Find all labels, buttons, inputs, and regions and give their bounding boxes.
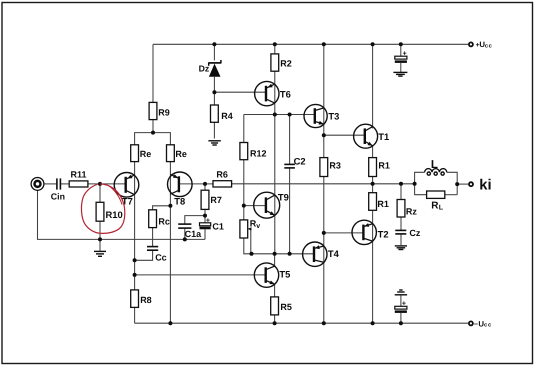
resistor R2 [271,54,279,71]
capacitor C2 [284,163,295,165]
wire T8 collector node to Rc [153,206,171,210]
wire R1 lower to T2 then bottom rail [372,210,374,323]
svg-text:Cz: Cz [409,228,420,238]
svg-text:cc: cc [484,323,492,329]
node R10 ground [98,237,102,241]
svg-text:T2: T2 [378,228,389,239]
resistor R5 [271,297,279,315]
wire split to left Re [135,133,153,145]
wire bottom rail [135,322,468,324]
node T9e T5c [273,252,277,256]
svg-text:T5: T5 [279,269,290,280]
wire C2 column upper [289,115,291,165]
node T6 T9 [273,113,277,117]
node output L right [455,182,459,186]
svg-text:R1: R1 [377,199,389,209]
wire right Re to T8 column down to bottom rail [169,162,171,324]
wire R5 to bottom rail [274,315,276,323]
svg-text:R5: R5 [280,302,292,312]
node T7col T5 base [133,273,137,277]
wire T1 collector column to rail [372,44,374,128]
wire T1 emitter to R1 upper [372,146,374,158]
node T8 Rc [168,204,172,208]
node Rv wiper [250,252,254,256]
svg-text:T9: T9 [278,192,289,203]
svg-text:R9: R9 [158,107,170,117]
wire T9 base [244,205,266,207]
wire T7 collector node to T5 base [135,274,266,276]
svg-text:R12: R12 [250,149,267,159]
svg-text:T8: T8 [174,195,185,206]
node rail R2 [273,42,277,46]
resistor R1 lower [369,193,377,211]
capacitor Cz [395,229,406,231]
svg-text:R1: R1 [378,161,390,171]
node Dz R4 T6 [212,90,216,94]
svg-text:R7: R7 [210,195,222,205]
annotation red tail through T7 [104,185,122,205]
annotation red circle around R10 [81,184,124,233]
wire R10 stem bottom [99,221,101,239]
node bottom R5 [273,321,277,325]
node T8 base R7 [203,182,207,186]
wire Rz to Cz [400,217,402,230]
transistor T1 [354,124,378,148]
wire R7 bottom to C1 node [204,209,206,222]
wire rail corner to R9 [152,44,154,102]
node C2 top [288,113,292,117]
wire R10 stem top [99,184,101,202]
resistor R7 [201,190,209,209]
capacitor -Ucc decoupling electrolytic [395,300,407,313]
node output L left [413,182,417,186]
node rail T3 [322,42,326,46]
svg-text:Rc: Rc [158,217,170,227]
terminal ki [469,182,473,186]
svg-text:Rz: Rz [406,206,417,216]
wire ground stem under R10 [99,239,101,250]
transistor T3 [304,104,327,127]
zener diode Dz [209,60,221,77]
wire Cin to R11 [60,183,69,185]
wire C1 node to C1a [185,216,205,225]
node R7 C1 C1a [203,214,207,218]
wire R7 stem [204,184,206,190]
transistor T5 [254,263,278,287]
capacitor +Ucc decoupling electrolytic [395,51,407,63]
wire T3 emitter node to T1 base [324,134,365,136]
capacitor Cc [147,246,158,248]
wire R8 to bottom rail [134,307,136,323]
svg-text:R2: R2 [280,58,292,68]
wire Cz to ground [400,234,402,245]
wire C1a bottom stem [184,228,186,239]
wire R4 to ground [213,122,215,138]
svg-text:R11: R11 [71,170,87,180]
wire Dz node to T6 base [214,91,266,93]
wire T3 collector column to rail [323,44,325,135]
capacitor C1 electrolytic [200,217,211,229]
svg-text:C2: C2 [294,155,306,166]
wire Rv wiper [247,229,250,254]
wire Cc bottom to T7 column [135,250,153,260]
wire left Re to T7 column down to R8 [134,162,136,290]
svg-text:R8: R8 [140,295,152,305]
svg-text:R3: R3 [329,161,341,171]
wire output node to Rz [400,184,402,200]
resistor R11 [69,181,88,187]
terminal +Ucc [469,42,473,46]
wire T3 emitter node to R3 [323,135,325,157]
node Cc T7col [133,258,137,262]
svg-text:Re: Re [175,149,187,159]
ground under R10 [94,250,106,252]
svg-text:L: L [439,205,444,212]
transistor T9 [254,192,280,218]
svg-text:C1a: C1a [185,229,203,239]
wire R11 to T7 base [88,183,126,185]
svg-text:cc: cc [485,43,493,49]
node bottom T4 [322,321,326,325]
resistor R3 [320,158,328,177]
svg-text:Cin: Cin [51,191,65,201]
resistor Rc [149,210,157,228]
resistor R6 [213,181,232,187]
resistor R10 [96,202,104,221]
svg-text:v: v [256,223,260,230]
node rail cap [399,42,403,46]
potentiometer Rv [240,220,248,238]
wire network to ki terminal [457,183,468,185]
wire T2 base from node [324,232,364,234]
node bottom T8col [168,321,172,325]
node T3 emitter [322,133,326,137]
node T7 base [98,182,102,186]
wire output node to L network [415,172,425,184]
wire +Ucc top rail [153,43,468,45]
node bottom cap [399,321,403,325]
svg-text:T3: T3 [328,111,339,122]
wire split to right Re [153,133,170,145]
resistor RL [427,191,445,198]
svg-text:R4: R4 [221,111,233,121]
svg-text:C1: C1 [212,222,224,232]
terminal -Ucc [469,321,473,325]
resistor Rz [397,200,405,218]
node C2 bottom [288,252,292,256]
wire R3 bottom down to T2 base node and T4 to bottom rail [323,177,325,324]
svg-text:R6: R6 [216,170,228,180]
node output R1 [371,182,375,186]
svg-text:Cc: Cc [155,253,167,263]
resistor R1 upper [369,158,377,177]
node bottom T2 [371,321,375,325]
svg-text:ki: ki [479,178,491,194]
wire Dz to R4 node [213,77,215,105]
svg-text:T6: T6 [280,89,291,100]
capacitor C1a [178,223,191,225]
svg-text:T1: T1 [378,131,389,142]
node rail Dz [212,42,216,46]
resistor Re right [167,145,175,162]
ground under Cz [395,245,407,247]
transistor T2 [352,220,376,244]
transistor T4 [303,242,327,266]
transistor T8 [168,172,193,197]
wire input jack to Cin [44,183,57,185]
resistor R4 [211,105,219,122]
node R9 split [151,131,155,135]
transistor T6 [255,81,279,105]
node rail T1 [371,42,375,46]
resistor R12 [240,143,248,160]
node T9 base tap [242,204,246,208]
wire T5 collector to mid node [274,254,276,266]
wire Rv bottom corner [244,238,314,254]
node output Rz [399,182,403,186]
resistor R8 [131,290,139,308]
wire T6 node to T3 base [244,114,315,116]
wire R9 bottom to split node [152,120,154,133]
inductor L [425,169,447,176]
svg-text:R10: R10 [106,209,123,220]
wire output rail from T8 base through R6 [179,183,213,185]
wire R1 upper to output node [372,177,374,193]
capacitor Cin [56,178,58,189]
wire T5 emitter to R5 [274,284,276,297]
svg-text:Re: Re [140,149,152,159]
resistor R9 [149,102,157,119]
wire Dz stem from rail [213,44,215,60]
wire Rc bottom to Cc [152,228,154,247]
input jack terminal [31,178,44,191]
transistor T7 [114,173,139,198]
ground under R4 [208,140,220,142]
svg-text:Dz: Dz [199,63,210,73]
svg-text:L: L [431,159,438,171]
wire C1 bottom to ground wire [204,229,206,239]
wire R12 column top [243,115,245,143]
wire C2 column lower [289,168,291,254]
node T2 base [322,231,326,235]
wire R12 to Rv with T9 base tap [243,160,245,220]
ground under top decoupling cap [393,71,407,73]
svg-text:T4: T4 [328,248,340,259]
wire top decoupling cap stem [400,44,402,56]
wire R2 column rail to T6 node T9 collector [274,44,276,54]
resistor Re left [131,145,139,162]
wire bottom decoupling cap stems [400,296,402,307]
ground above bottom decoupling cap [399,289,402,291]
node C1a ground wire [183,237,187,241]
wire jack ground drop [38,191,206,240]
